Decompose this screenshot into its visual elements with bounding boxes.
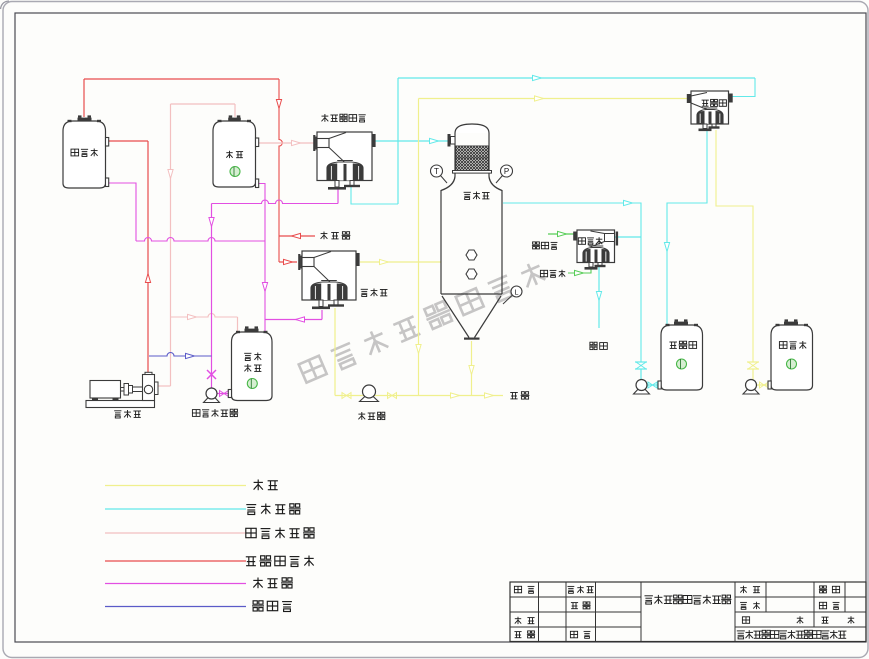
wire pink drop to steam drum top xyxy=(234,104,236,117)
wire magenta drain header from preheater2 xyxy=(212,200,339,203)
arrow red raw steam left xyxy=(292,233,301,238)
label 储罐 xyxy=(590,342,593,345)
wire yellow heater drain leg xyxy=(334,308,336,396)
legend label 喷淋水 xyxy=(253,601,257,604)
title block label 重量 xyxy=(740,601,747,603)
title block label 数量 xyxy=(820,586,823,588)
legend line 高温位蒸汽 red xyxy=(105,560,246,562)
exchanger 冷凝器 bundle xyxy=(583,248,609,263)
vessel receiver tank 接收罐 xyxy=(661,325,703,390)
wire magenta down to spray pump xyxy=(211,204,213,389)
wire magenta heater drain leg xyxy=(321,310,323,320)
arrow cyan right xyxy=(624,200,633,205)
sheet corner arc fragment top-left xyxy=(1,1,10,9)
svg-text:T: T xyxy=(434,167,439,176)
wire red drop to buffer tank top xyxy=(83,79,85,117)
valve yellow bowtie 1 xyxy=(342,393,347,399)
legend label 过热水 xyxy=(257,578,259,589)
legend line 低温位蒸汽 pink xyxy=(105,532,246,534)
label 盐水出 xyxy=(533,242,536,244)
exchanger condenser 冷凝器 xyxy=(577,230,615,263)
wire magenta from steam drum bottom xyxy=(255,184,265,332)
label 分离室 xyxy=(464,191,471,193)
arrow yellow right b2 xyxy=(485,393,494,398)
title block label 日期 xyxy=(570,631,577,638)
label 循环泵 xyxy=(361,412,363,420)
title block company 新乡市双诚环保设备有限公司 xyxy=(737,630,745,632)
wire cyan right down to preheater xyxy=(732,78,755,97)
legend label 高温位蒸汽 xyxy=(246,556,256,558)
pump receiver feed xyxy=(634,389,650,394)
wire cyan vertical at separator xyxy=(397,78,399,204)
label 出料 xyxy=(510,392,518,394)
label 压缩机 xyxy=(114,410,121,412)
exchanger 冷凝器 legs xyxy=(589,263,593,268)
wire yellow pump to raw tank xyxy=(757,384,771,386)
wire yellow heater to separator xyxy=(360,261,441,263)
wire pink steam drum to preheater xyxy=(257,142,315,144)
title block label 设计 xyxy=(514,586,521,593)
legend label 低温位蒸汽 xyxy=(246,528,256,537)
exchanger 预热器 bundle xyxy=(697,110,723,125)
valve yellow bowtie 2 xyxy=(388,393,393,399)
wire cyan preheater2 leg elbow xyxy=(351,187,398,204)
compressor 压缩机 xyxy=(86,401,155,408)
title block label 校对 xyxy=(517,617,519,624)
label 预热器 xyxy=(702,99,709,101)
exchanger preheater 预热器 xyxy=(691,91,729,124)
legend line 物料 yellow xyxy=(105,485,246,487)
label 缓冷罐 xyxy=(71,149,79,156)
wire yellow valve to pump xyxy=(752,369,754,380)
arrow green brine out xyxy=(558,231,567,236)
wire yellow main vertical xyxy=(418,99,420,396)
wire cyan valve to pump xyxy=(640,369,642,380)
legend line 蒸发溶剂 cyan xyxy=(105,508,246,510)
wire yellow top header to preheater xyxy=(419,98,690,100)
pump spray circulation 喷淋循环泵 xyxy=(204,398,220,403)
arrow magenta left xyxy=(296,317,305,322)
title block label 审核 xyxy=(514,631,521,633)
instrument P circle xyxy=(496,176,503,184)
arrow pink down xyxy=(168,170,173,179)
wire magenta horizontal collector xyxy=(136,238,265,241)
arrow yellow right xyxy=(380,259,389,264)
wire cyan preheater2 to separator xyxy=(374,140,452,142)
valve yellow gate xyxy=(747,361,759,363)
exchanger heater 加热器 xyxy=(302,251,356,300)
wire pink branch to hot water tank xyxy=(171,314,238,317)
label 盐水进 xyxy=(540,270,547,277)
wire green brine in xyxy=(568,266,591,273)
wire yellow bottom header 出料 xyxy=(335,395,503,397)
valve magenta X at spray pump xyxy=(207,370,216,379)
arrow cyan down receiver xyxy=(664,243,669,252)
label 喷淋循环泵 xyxy=(192,410,200,417)
wire yellow preheater drain xyxy=(716,130,753,362)
valve yellow bowtie raw tank xyxy=(760,382,765,388)
wire magenta heater drain branch xyxy=(265,319,322,321)
wire pink main vertical to compressor xyxy=(170,104,172,386)
label 冷凝器 xyxy=(578,238,585,245)
valve magenta bowtie at tank xyxy=(220,391,225,397)
vessel raw material tank 原料罐 xyxy=(771,325,813,390)
wire pink compressor suction xyxy=(158,385,171,387)
arrow yellow right top xyxy=(535,96,544,101)
wire cyan condenser drain to storage xyxy=(598,267,600,328)
exchanger 加热器 bundle xyxy=(311,282,347,300)
arrow red right into heater xyxy=(284,259,293,264)
wire magenta from buffer tank bottom xyxy=(105,183,136,241)
label 原料罐 xyxy=(779,342,787,349)
arrow red down xyxy=(276,100,281,109)
wire cyan separator outlet header xyxy=(503,203,641,362)
arrow red up xyxy=(145,274,150,283)
wire cyan preheater drain xyxy=(667,130,707,324)
arrow yellow down cone xyxy=(469,366,474,375)
exchanger 二汽预热器 bundle xyxy=(327,162,363,181)
wire cyan condenser outlet xyxy=(615,236,641,238)
vessel steam drum 汽包 xyxy=(213,121,256,187)
pump raw material feed xyxy=(743,389,759,394)
wire red raw steam branch 生蒸汽 xyxy=(279,235,315,237)
wire red compressor discharge vertical xyxy=(147,141,149,374)
arrow blue right xyxy=(186,353,195,358)
label 加热器 xyxy=(361,288,368,290)
arrow magenta down2 xyxy=(209,218,214,227)
label 过热 (line1) xyxy=(244,352,251,354)
wire red main steam top header xyxy=(84,78,279,80)
pump circulation 循环泵 xyxy=(360,396,379,401)
title block grid xyxy=(510,582,866,642)
wire pink top header xyxy=(171,103,236,105)
exchanger 加热器 legs xyxy=(319,300,323,307)
wire cyan top header xyxy=(398,77,755,79)
wire green brine out xyxy=(548,233,574,235)
title block label 比例 xyxy=(819,602,826,609)
separator column 分离室 xyxy=(455,124,489,133)
valve cyan bowtie xyxy=(648,382,653,388)
label 生蒸汽 xyxy=(323,232,325,240)
svg-text:L: L xyxy=(514,287,518,296)
arrow yellow down mid xyxy=(416,345,421,354)
exchanger 二汽预热器 legs xyxy=(335,181,339,188)
wire cyan pump outlet xyxy=(647,384,658,386)
exchanger 预热器 legs xyxy=(703,124,707,129)
title block label 标准化 xyxy=(568,585,575,587)
title block label 总张第张 xyxy=(742,617,749,624)
arrow cyan down storage xyxy=(596,292,601,301)
wire pink drop into hot water tank top xyxy=(237,317,239,331)
separator manhole hexagon upper xyxy=(466,250,477,260)
label 汽包 xyxy=(229,151,231,158)
wire yellow separator cone outlet xyxy=(471,341,473,396)
instrument T circle xyxy=(441,176,448,184)
wire red compressor discharge horizontal xyxy=(105,140,148,142)
arrow green brine in xyxy=(575,270,584,275)
watermark 河南双诚环保设备 xyxy=(299,260,546,383)
label 接收罐 xyxy=(669,341,677,343)
wire magenta preheater2 drain leg xyxy=(337,189,339,204)
wire red vertical header to heater xyxy=(279,79,282,262)
vessel buffer-cool tank 缓冷罐 xyxy=(63,121,106,188)
legend line 过热水 magenta xyxy=(105,583,246,585)
arrow pink right to preheater xyxy=(292,140,301,145)
arrow magenta down xyxy=(262,283,267,292)
separator manhole hexagon lower xyxy=(466,269,477,279)
svg-text:P: P xyxy=(504,167,509,176)
valve cyan gate xyxy=(635,361,647,363)
exchanger secondary steam preheater 二汽预热器 xyxy=(317,132,372,181)
instrument L circle xyxy=(503,296,512,305)
wire blue spray line xyxy=(149,353,212,357)
legend label 物料 xyxy=(257,480,259,491)
arrow pink right xyxy=(188,314,197,319)
legend label 蒸发溶剂 xyxy=(246,504,256,506)
wire red elbow to heater nozzle xyxy=(279,261,297,263)
wire magenta spray pump outlet xyxy=(217,393,231,395)
arrow cyan right top xyxy=(533,75,542,80)
vessel superheated water tank 过热水罐 xyxy=(232,332,273,401)
label 水罐 (line2) xyxy=(247,364,249,372)
title block drawing title 余热回收装置示意图 xyxy=(645,595,653,597)
arrow yellow right b1 xyxy=(451,393,460,398)
title block label 审定 xyxy=(571,602,578,604)
title block label 材料 xyxy=(743,586,745,593)
legend line 喷淋水 blue xyxy=(105,606,246,608)
arrow cyan right into separator xyxy=(430,138,439,143)
label 二汽预热器 xyxy=(324,114,326,122)
